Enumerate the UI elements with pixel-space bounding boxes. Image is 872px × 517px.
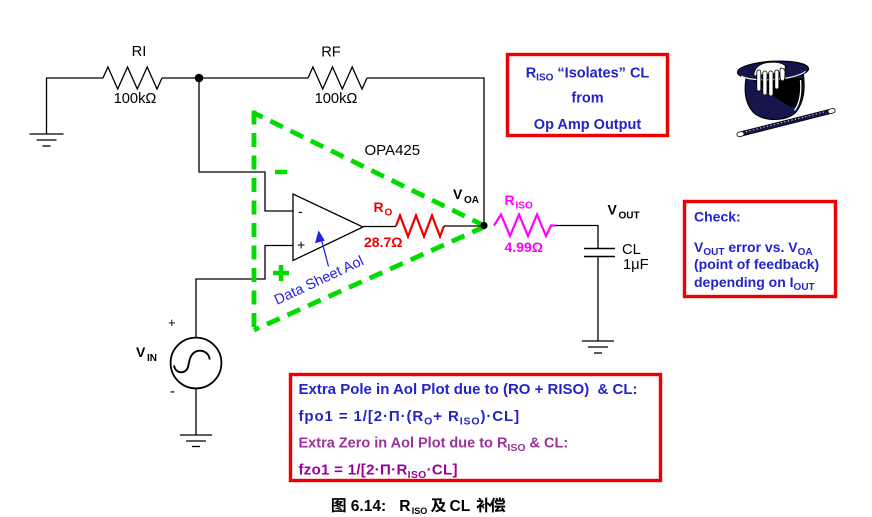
magician hat icon — [737, 59, 836, 137]
wire CL to ground — [597, 257, 599, 342]
wire VIN to ground — [195, 388, 197, 435]
resistor RF — [308, 67, 367, 89]
white glove — [754, 62, 786, 96]
wire node to RF — [199, 77, 308, 79]
svg-text:4.99Ω: 4.99Ω — [505, 239, 543, 255]
wire node to inverting input — [199, 78, 293, 211]
svg-text:6.14:: 6.14: — [351, 498, 386, 515]
ground — [30, 134, 64, 146]
green dashed Aol boundary triangle — [254, 111, 485, 331]
svg-text:-: - — [298, 203, 303, 219]
wire op-amp output to RO — [363, 226, 396, 228]
resistor RI — [103, 67, 162, 89]
svg-text:RF: RF — [321, 45, 341, 61]
wire RF to VOA node — [367, 78, 484, 226]
op-amp U1 OPA425 — [293, 194, 363, 261]
svg-text:ISO: ISO — [412, 506, 428, 516]
green minus label — [275, 170, 287, 175]
callout box: Check — [685, 202, 836, 297]
svg-text:28.7Ω: 28.7Ω — [364, 234, 402, 250]
wire RO to VOA node — [444, 225, 484, 227]
svg-text:100kΩ: 100kΩ — [114, 91, 157, 107]
node summing junction — [195, 74, 204, 83]
svg-text:Extra Pole in Aol Plot due to: Extra Pole in Aol Plot due to (RO + RISO… — [299, 381, 638, 398]
wire left input to RI — [47, 78, 104, 134]
hat body — [745, 75, 804, 119]
svg-text:OA: OA — [464, 195, 479, 206]
svg-text:OPA425: OPA425 — [365, 142, 421, 159]
magic wand — [737, 108, 836, 137]
svg-text:IN: IN — [147, 353, 157, 364]
svg-text:RI: RI — [132, 44, 147, 60]
capacitor CL 1uF — [584, 249, 615, 257]
svg-text:100kΩ: 100kΩ — [315, 91, 358, 107]
hat interior shadow — [751, 78, 803, 107]
svg-text:O: O — [385, 208, 393, 219]
svg-text:fpo1 = 1/[2·Π·(RO+ RISO)·CL]: fpo1 = 1/[2·Π·(RO+ RISO)·CL] — [299, 408, 520, 427]
svg-text:Op Amp Output: Op Amp Output — [534, 117, 642, 133]
blue annotation arrow Data Sheet Aol — [316, 232, 329, 267]
callout box: Extra pole / zero formulas — [291, 375, 661, 481]
svg-text:-: - — [170, 383, 175, 400]
svg-text:(point of feedback): (point of feedback) — [694, 256, 819, 272]
svg-text:R: R — [399, 498, 410, 515]
svg-text:V: V — [453, 186, 463, 202]
resistor RO 28.7ohm — [396, 216, 444, 237]
node VOA — [480, 222, 487, 229]
svg-text:fzo1 = 1/[2·Π·RISO·CL]: fzo1 = 1/[2·Π·RISO·CL] — [299, 462, 458, 481]
svg-text:Extra Zero in Aol Plot due to: Extra Zero in Aol Plot due to RISO & CL: — [299, 436, 569, 454]
svg-text:R: R — [374, 199, 384, 215]
svg-text:CL: CL — [450, 498, 471, 515]
svg-text:from: from — [571, 91, 603, 107]
source VIN — [171, 338, 222, 389]
green plus label — [273, 265, 289, 281]
resistor RISO 4.99ohm — [494, 215, 556, 237]
svg-text:Check:: Check: — [694, 209, 741, 225]
svg-text:1μF: 1μF — [623, 257, 649, 273]
wire RISO to VOUT — [556, 226, 598, 249]
svg-text:+: + — [297, 237, 305, 253]
wire RI to node — [162, 77, 199, 79]
ground — [180, 435, 212, 447]
caption: figure 6.14 Riso and CL compensation — [332, 497, 505, 516]
svg-text:OUT: OUT — [619, 211, 640, 222]
svg-text:V: V — [608, 202, 618, 218]
svg-text:V: V — [136, 344, 146, 360]
wire VIN to non-inverting input — [196, 246, 293, 338]
ground — [582, 341, 614, 353]
svg-text:CL: CL — [622, 242, 641, 258]
callout box: Riso isolates CL — [508, 55, 668, 136]
svg-text:+: + — [168, 315, 176, 330]
hat brim — [737, 59, 809, 81]
svg-text:R: R — [505, 192, 515, 208]
svg-text:ISO: ISO — [516, 201, 533, 212]
body highlight line right — [795, 80, 801, 111]
